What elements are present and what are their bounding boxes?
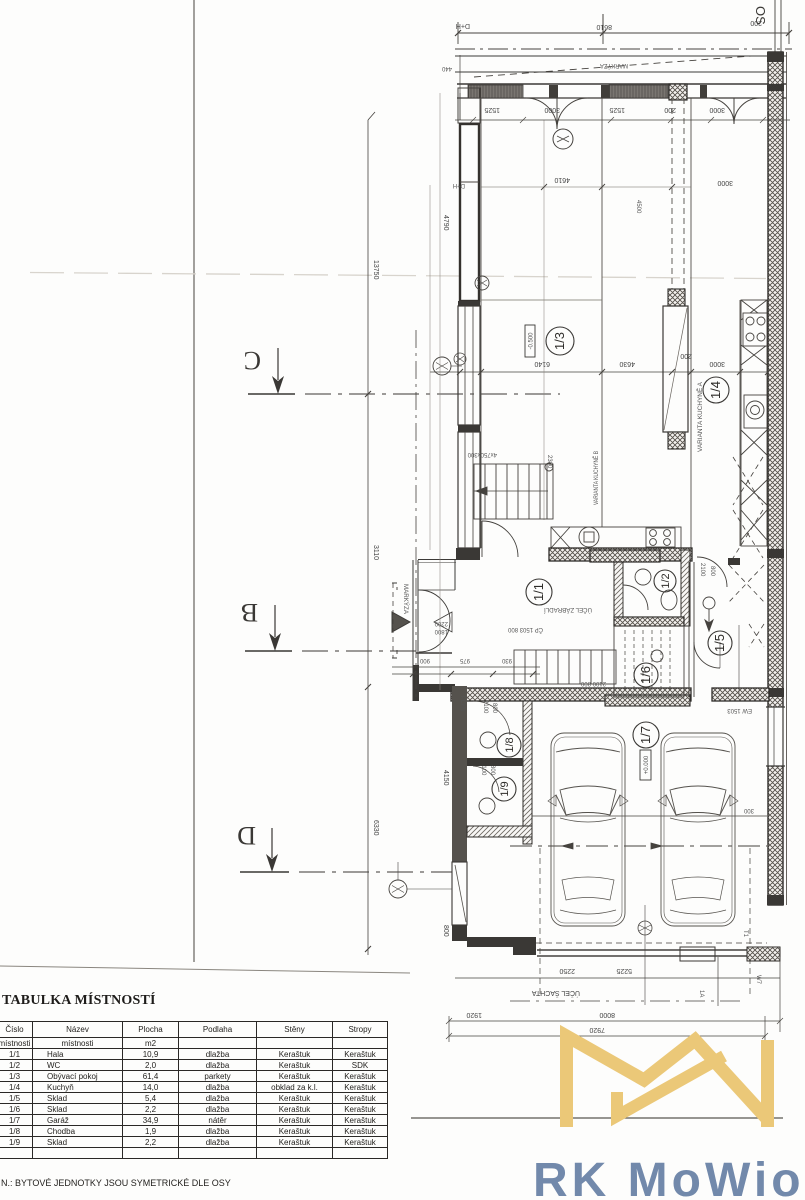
svg-text:1920: 1920 — [466, 1011, 482, 1018]
svg-text:B: B — [241, 598, 258, 627]
svg-text:800: 800 — [442, 925, 449, 937]
svg-text:900: 900 — [419, 657, 430, 663]
svg-text:440: 440 — [441, 65, 452, 71]
svg-text:800: 800 — [489, 765, 495, 776]
svg-text:4630: 4630 — [619, 360, 635, 367]
svg-text:D: D — [237, 821, 256, 850]
svg-text:1/6: 1/6 — [638, 666, 653, 684]
svg-text:ČP 1503 800: ČP 1503 800 — [507, 626, 543, 633]
svg-text:4610: 4610 — [554, 176, 570, 183]
svg-text:1/9: 1/9 — [499, 781, 511, 796]
svg-text:C: C — [244, 346, 261, 375]
svg-text:1/3: 1/3 — [552, 332, 567, 350]
svg-text:D+H: D+H — [456, 22, 470, 29]
svg-text:D+H: D+H — [453, 182, 465, 188]
svg-text:200: 200 — [680, 352, 692, 359]
svg-text:3000: 3000 — [709, 360, 725, 367]
svg-text:800: 800 — [709, 566, 715, 577]
svg-text:1/2: 1/2 — [660, 573, 672, 588]
svg-text:3000: 3000 — [709, 106, 725, 113]
svg-text:ÚČEL ŠACHTA: ÚČEL ŠACHTA — [531, 989, 580, 998]
svg-text:2250: 2250 — [559, 967, 575, 974]
svg-text:6140: 6140 — [534, 360, 550, 367]
svg-text:2200: 2200 — [434, 620, 448, 626]
svg-text:W7: W7 — [755, 975, 761, 985]
svg-text:975: 975 — [459, 657, 470, 663]
svg-text:1/7: 1/7 — [638, 726, 653, 744]
svg-text:13750: 13750 — [372, 260, 379, 280]
svg-text:8000: 8000 — [599, 1011, 615, 1018]
svg-text:200: 200 — [664, 106, 676, 113]
svg-text:-0.500: -0.500 — [529, 332, 535, 350]
svg-text:4150: 4150 — [442, 770, 449, 786]
svg-text:4500: 4500 — [635, 200, 641, 214]
svg-text:1/8: 1/8 — [504, 737, 516, 752]
svg-text:5225: 5225 — [616, 967, 632, 974]
svg-text:MARKÝZA: MARKÝZA — [600, 62, 628, 69]
svg-text:1/5: 1/5 — [712, 634, 727, 652]
svg-text:T1: T1 — [742, 930, 748, 938]
svg-text:930: 930 — [501, 657, 512, 663]
svg-text:3110: 3110 — [372, 545, 379, 560]
svg-text:VARIANTA KUCHYNĚ A: VARIANTA KUCHYNĚ A — [696, 382, 704, 452]
svg-text:300: 300 — [743, 807, 754, 813]
svg-text:1800: 1800 — [434, 628, 448, 634]
svg-text:RK MoWio: RK MoWio — [533, 1154, 805, 1200]
svg-text:1A: 1A — [698, 990, 704, 997]
svg-text:PLYN: PLYN — [459, 696, 465, 711]
svg-text:1525: 1525 — [484, 106, 500, 113]
svg-text:4790: 4790 — [442, 215, 449, 231]
svg-text:2100: 2100 — [699, 563, 705, 577]
svg-text:3000: 3000 — [544, 106, 560, 113]
svg-text:1/1: 1/1 — [531, 583, 546, 601]
svg-text:VARIANTA KUCHYNĚ B: VARIANTA KUCHYNĚ B — [592, 451, 600, 505]
svg-text:MARKÝZA: MARKÝZA — [402, 584, 409, 614]
svg-text:1525: 1525 — [609, 106, 625, 113]
svg-text:ÚČEL ZÁBRADLÍ: ÚČEL ZÁBRADLÍ — [544, 606, 592, 613]
svg-text:EW 1503: EW 1503 — [727, 707, 752, 713]
svg-text:3000: 3000 — [717, 179, 733, 186]
svg-text:+0.000: +0.000 — [644, 755, 650, 774]
svg-text:6330: 6330 — [372, 820, 379, 836]
svg-text:1/4: 1/4 — [708, 381, 723, 399]
svg-text:7920: 7920 — [589, 1026, 605, 1033]
svg-text:800: 800 — [491, 703, 497, 714]
svg-text:8610: 8610 — [596, 23, 612, 30]
svg-text:200: 200 — [750, 19, 762, 26]
svg-text:4x750x300: 4x750x300 — [467, 451, 497, 457]
